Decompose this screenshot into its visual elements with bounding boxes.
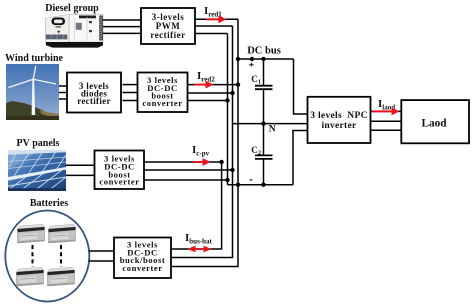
svg-text:Batteries: Batteries xyxy=(30,198,68,209)
minus sign xyxy=(250,179,253,181)
junction top rail at capacitor branch xyxy=(261,57,265,61)
wire turbine to diodes rectifier phase c xyxy=(59,98,67,100)
wire PWM rectifier + output to bus rail xyxy=(195,18,238,20)
wire PWM rectifier - output xyxy=(195,33,228,35)
junction bottom rail at collector xyxy=(236,183,240,187)
wire inverter to load phase a xyxy=(371,110,402,112)
DC bus N rail xyxy=(233,123,308,125)
junction PV boost - xyxy=(225,178,229,182)
junction top rail at collector xyxy=(236,57,240,61)
converter box battery DC-DC buck/boost xyxy=(114,238,171,279)
wind turbine image xyxy=(6,64,59,120)
svg-text:DC bus: DC bus xyxy=(247,46,281,57)
svg-text:inverter: inverter xyxy=(321,121,357,131)
wire diesel to PWM rectifier phase b xyxy=(103,26,141,28)
arrow Ilaod xyxy=(372,108,400,116)
wire turbine to diodes rectifier phase a xyxy=(59,85,67,87)
junction PV boost N xyxy=(230,168,234,172)
wire - riser to inverter xyxy=(293,131,308,185)
capacitor branch middle wire xyxy=(263,89,265,155)
junction PV boost + xyxy=(219,160,223,164)
wire batteries to buck-boost top xyxy=(89,250,114,252)
wire diodes rectifier to wind boost a xyxy=(123,84,138,86)
battery 1 xyxy=(18,224,45,243)
wire + riser to inverter xyxy=(294,59,308,114)
wire PV to boost + xyxy=(66,164,95,166)
wire inverter to load phase b xyxy=(371,120,402,122)
battery 3 xyxy=(17,267,44,286)
battery 4 xyxy=(48,267,75,286)
PV panels image xyxy=(8,150,70,191)
junction wind boost - xyxy=(225,98,229,102)
double arrow Ibus-bat xyxy=(188,246,212,253)
svg-text:Diesel group: Diesel group xyxy=(45,3,99,14)
wire turbine to diodes rectifier phase b xyxy=(59,92,67,94)
wire PWM rectifier N output xyxy=(195,25,233,27)
svg-text:Laod: Laod xyxy=(421,118,447,130)
svg-text:Wind turbine: Wind turbine xyxy=(5,53,63,64)
junction N rail capacitor branch xyxy=(261,121,265,125)
wire PV boost + output xyxy=(144,161,222,163)
capacitor branch upper wire xyxy=(263,59,265,85)
junction wind boost N xyxy=(230,91,234,95)
wire diodes rectifier to wind boost b xyxy=(123,92,138,94)
vertical collector rail + (x=238) xyxy=(171,19,238,266)
wire batteries to buck-boost bottom xyxy=(89,260,114,262)
svg-text:converter: converter xyxy=(142,98,182,108)
vertical collector rail N (x=232.5) xyxy=(171,26,233,258)
svg-text:N: N xyxy=(269,124,276,134)
diesel generator image xyxy=(46,15,104,48)
converter box NPC inverter xyxy=(308,97,371,143)
svg-text:rectifier: rectifier xyxy=(77,96,111,106)
svg-text:rectifier: rectifier xyxy=(150,30,185,40)
converter box PWM rectifier xyxy=(141,8,195,44)
junction wind boost + xyxy=(236,82,240,86)
arrow Ired1 xyxy=(206,15,227,23)
wire wind boost + output xyxy=(187,84,238,86)
converter box diodes rectifier xyxy=(67,73,121,113)
capacitor C2 xyxy=(251,145,272,159)
dashed link battery column 1 xyxy=(32,245,34,267)
load box xyxy=(401,100,469,143)
wire wind boost - output xyxy=(187,100,228,102)
wire diesel to PWM rectifier phase c xyxy=(103,32,141,34)
svg-text:converter: converter xyxy=(99,177,139,187)
dashed link battery column 2 xyxy=(60,245,62,267)
wire diodes rectifier to wind boost c xyxy=(123,100,138,102)
battery 2 xyxy=(49,224,76,243)
DC bus bottom rail - xyxy=(228,184,294,186)
converter box wind DC-DC boost xyxy=(138,73,188,113)
vertical collector rail - (x=227.5) xyxy=(227,34,229,185)
capacitor branch lower wire xyxy=(263,159,265,185)
wire diesel to PWM rectifier phase a xyxy=(103,19,141,21)
svg-text:PV panels: PV panels xyxy=(17,138,60,149)
wire wind boost N output xyxy=(187,92,233,94)
junction bottom rail at capacitor branch xyxy=(261,183,265,187)
batteries group ellipse xyxy=(5,211,89,302)
wire PV boost - output xyxy=(144,179,228,181)
wire PV boost N output xyxy=(144,169,233,171)
junction top rail mid xyxy=(250,57,254,61)
DC bus top rail + xyxy=(238,58,294,60)
vertical collector rail PV-battery (x=221.6) xyxy=(171,162,222,249)
arrow Ired2 xyxy=(194,81,214,89)
wire PV to boost - xyxy=(66,174,95,176)
svg-text:3 levels NPC: 3 levels NPC xyxy=(310,111,367,121)
capacitor C1 xyxy=(251,74,272,89)
svg-text:converter: converter xyxy=(122,263,162,273)
converter box PV DC-DC boost xyxy=(95,151,145,190)
arrow Ic-pv xyxy=(193,158,211,166)
plus sign xyxy=(249,63,253,67)
wire inverter to load phase c xyxy=(371,129,402,131)
